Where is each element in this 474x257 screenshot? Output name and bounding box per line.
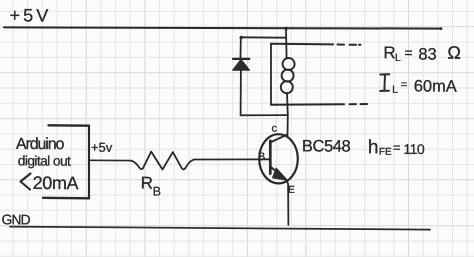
svg-text:=: = <box>404 44 412 60</box>
svg-text:digital out: digital out <box>18 153 71 168</box>
svg-text:Ω: Ω <box>447 43 461 63</box>
svg-text:R: R <box>383 43 395 62</box>
svg-text:R: R <box>141 173 153 192</box>
svg-text:B: B <box>258 151 265 163</box>
svg-text:=: = <box>393 140 401 155</box>
svg-text:h: h <box>368 137 379 158</box>
svg-text:60mA: 60mA <box>414 77 457 95</box>
svg-text:BC548: BC548 <box>302 137 351 155</box>
svg-text:B: B <box>153 185 161 199</box>
svg-text:GND: GND <box>1 211 30 227</box>
svg-text:+5v: +5v <box>91 140 113 155</box>
svg-text:=: = <box>401 79 408 91</box>
svg-text:E: E <box>288 185 295 196</box>
svg-text:L: L <box>392 84 398 96</box>
svg-text:L: L <box>395 52 401 64</box>
svg-text:Arduino: Arduino <box>16 136 65 153</box>
svg-text:FE: FE <box>379 147 392 158</box>
svg-text:+5V: +5V <box>10 5 52 25</box>
svg-text:20mA: 20mA <box>33 173 79 193</box>
svg-text:110: 110 <box>403 141 425 157</box>
svg-text:83: 83 <box>418 45 436 63</box>
svg-text:c: c <box>271 123 277 135</box>
